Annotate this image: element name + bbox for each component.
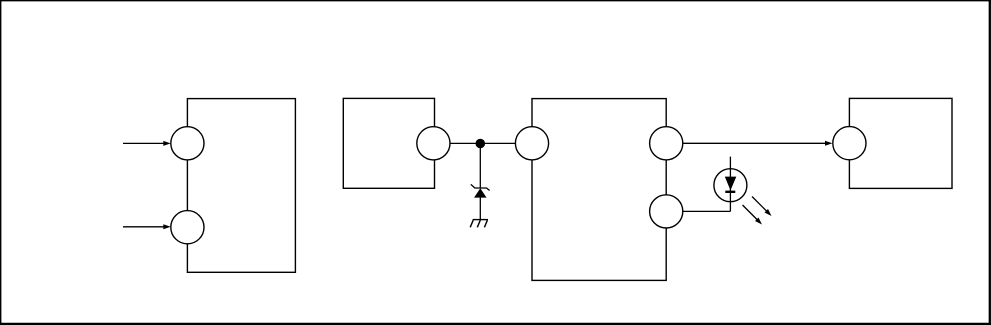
ground [470,220,488,228]
LED light emission arrow 1 [752,197,772,217]
pin circle: main box input [515,127,548,160]
pin circle: left box input 1 [171,127,204,160]
wire from main box bottom output to LED [682,210,730,212]
zener diode D1 [471,184,490,197]
pin circle: left box input 2 [171,211,204,244]
pin circle: source box output [417,127,450,160]
pin circle: main box top output [650,127,683,160]
LED light emission arrow 2 [743,205,763,225]
block: main box [532,99,666,281]
block: left receiver box [187,99,295,273]
wire from zener to ground [479,197,481,220]
pin circle: right box input [833,127,866,160]
wire from source box pin to main box pin [449,142,516,144]
pin circle: main box bottom output [650,195,683,228]
block: source box [343,98,434,188]
arrow into input 2 of left box [123,224,171,229]
wire from junction down to zener diode [479,144,481,189]
wire from main box top output to right box (with arrowhead) [682,141,832,146]
block: right output box [849,98,952,188]
LED D2 [714,157,747,212]
arrow into input 1 of left box [123,141,171,146]
junction dot [476,139,486,149]
